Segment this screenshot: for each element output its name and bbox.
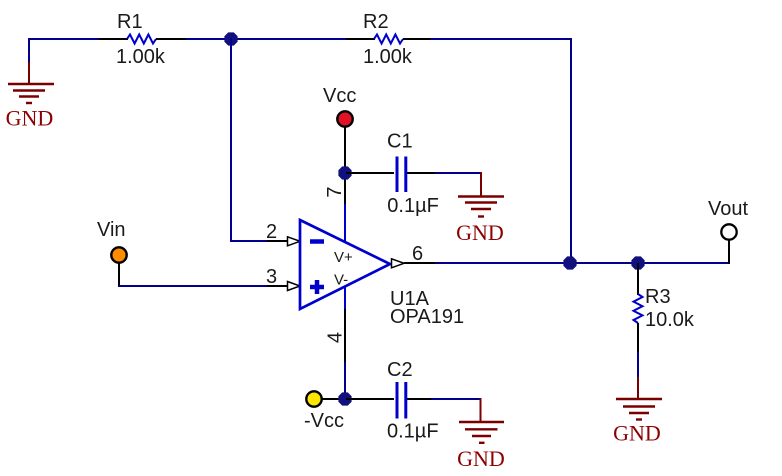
svg-text:3: 3 <box>266 266 277 288</box>
svg-text:C1: C1 <box>387 131 413 153</box>
terminal Vcc <box>323 85 356 127</box>
terminal -Vcc <box>304 391 344 432</box>
node junction <box>224 32 237 45</box>
wire <box>118 285 268 287</box>
resistor R2 <box>346 11 431 68</box>
svg-text:R2: R2 <box>363 11 389 33</box>
wire <box>570 38 572 264</box>
svg-text:V-: V- <box>334 272 348 289</box>
ground <box>613 377 662 446</box>
svg-text:4: 4 <box>325 332 347 343</box>
wire <box>637 352 639 378</box>
svg-text:R1: R1 <box>117 11 143 33</box>
svg-text:Vin: Vin <box>97 219 126 241</box>
svg-text:1.00k: 1.00k <box>363 46 413 68</box>
op-amp U1A <box>300 220 464 328</box>
svg-text:7: 7 <box>324 186 346 197</box>
pin 2 arrow <box>288 237 301 246</box>
capacitor C2 <box>346 359 439 443</box>
svg-text:Vcc: Vcc <box>323 85 356 107</box>
pin 4 lead <box>344 309 346 363</box>
svg-text:GND: GND <box>613 421 661 446</box>
pin 7 stub <box>344 204 346 242</box>
svg-text:10.0k: 10.0k <box>645 309 695 331</box>
node junction <box>338 166 351 179</box>
pin 3 arrow <box>288 282 301 291</box>
svg-text:R3: R3 <box>645 286 671 308</box>
svg-text:0.1µF: 0.1µF <box>387 421 439 443</box>
pin 4 stub <box>344 286 346 310</box>
ground <box>456 172 504 245</box>
svg-text:2: 2 <box>266 221 277 243</box>
ground <box>457 398 505 471</box>
wire <box>230 240 268 242</box>
wire <box>28 38 100 40</box>
wire <box>344 362 346 400</box>
svg-text:Vout: Vout <box>708 198 748 220</box>
wire <box>435 172 482 174</box>
node junction <box>631 256 644 269</box>
pin 3 lead <box>267 285 288 287</box>
wire (-Vcc lead) <box>322 398 346 400</box>
wire (output) <box>435 262 730 264</box>
wire <box>28 38 30 63</box>
capacitor C1 <box>346 131 439 218</box>
svg-text:GND: GND <box>457 446 505 471</box>
node junction <box>563 256 576 269</box>
node junction <box>338 392 351 405</box>
terminal Vin <box>97 219 127 263</box>
svg-text:OPA191: OPA191 <box>390 306 464 328</box>
wire (inverting input from node) <box>230 38 232 242</box>
svg-text:GND: GND <box>6 106 54 131</box>
wire (Vin lead) <box>118 263 120 287</box>
wire <box>186 38 347 40</box>
terminal Vout <box>708 198 748 240</box>
svg-text:GND: GND <box>456 220 504 245</box>
wire <box>430 38 572 40</box>
pin 6 lead <box>404 262 436 264</box>
wire <box>431 398 482 400</box>
ground <box>6 62 54 131</box>
wire (Vout lead) <box>728 240 730 264</box>
svg-text:6: 6 <box>412 243 423 265</box>
resistor R3 <box>634 263 695 353</box>
svg-text:C2: C2 <box>387 359 413 381</box>
pin 7 lead <box>344 127 346 205</box>
resistor R1 <box>99 11 187 68</box>
pin 2 lead <box>267 240 288 242</box>
svg-text:-Vcc: -Vcc <box>304 410 344 432</box>
svg-text:0.1µF: 0.1µF <box>387 195 439 217</box>
svg-text:V+: V+ <box>334 249 353 266</box>
pin 6 arrow <box>392 259 405 268</box>
svg-text:1.00k: 1.00k <box>116 46 166 68</box>
